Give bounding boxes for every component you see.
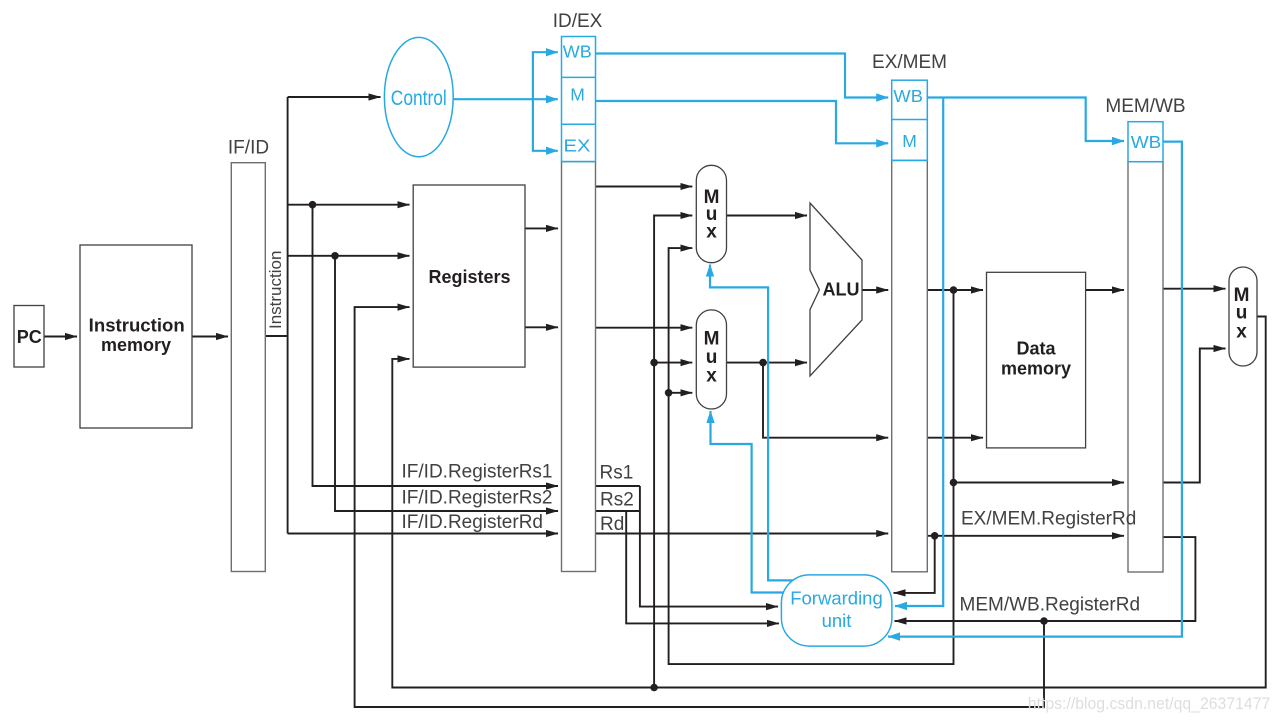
wire control branch to ID/EX WB — [533, 52, 558, 99]
svg-text:WB: WB — [893, 86, 923, 106]
pipeline register ID/EX black section — [562, 162, 596, 572]
wire ForwardA select to Mux1 — [710, 265, 793, 581]
block Registers — [413, 185, 525, 367]
block Instruction memory — [80, 245, 192, 428]
wire ID/EX.RegisterRs2 to Forwarding unit — [626, 511, 779, 623]
wire Registers read data 2 to ID/EX — [525, 326, 558, 328]
wire EX/MEM.RegisterRd to Forwarding unit — [894, 536, 935, 593]
wire to Registers read port 2 — [288, 255, 410, 257]
svg-text:Instruction: Instruction — [266, 251, 285, 329]
wire ID/EX value B to Mux2 — [596, 327, 693, 329]
wire ALU output to EX/MEM — [862, 289, 889, 291]
wire EX/MEM ALU result to Data memory address — [927, 289, 983, 291]
wire IF/ID.RegisterRs1 — [313, 205, 559, 486]
wire Registers read data 1 to ID/EX — [525, 227, 558, 229]
junction ALU result / forwarding tap — [950, 286, 958, 294]
mux Mux3 — [1229, 267, 1257, 366]
wire IF/ID.RegisterRd — [288, 533, 558, 535]
svg-text:memory: memory — [101, 335, 171, 355]
junction WB-value line / Mux2 input — [650, 359, 658, 367]
wire to Control — [288, 96, 381, 98]
svg-text:Registers: Registers — [428, 267, 510, 287]
junction instruction bus / Rs1 tap — [309, 201, 317, 209]
wire IF/ID instruction output stub — [265, 335, 287, 337]
wire Mux1 output to ALU — [727, 215, 808, 217]
svg-text:Instruction: Instruction — [89, 315, 185, 335]
svg-text:memory: memory — [1001, 358, 1071, 378]
wire EX/MEM store data to Data memory — [927, 437, 983, 439]
junction MEM/WB.RegisterRd tap — [1040, 617, 1048, 625]
svg-text:WB: WB — [563, 42, 592, 62]
svg-text:EX: EX — [564, 136, 591, 156]
wire Data memory read data to MEM/WB — [1086, 289, 1124, 291]
mux Mux2 — [696, 310, 726, 409]
ALU — [810, 203, 862, 376]
pipeline register ID/EX control section WB/M/EX — [562, 37, 596, 162]
wire IF/ID.RegisterRs2 — [335, 256, 558, 511]
junction write-data line / WB-value tap — [650, 684, 658, 692]
svg-text:https://blog.csdn.net/qq_26371: https://blog.csdn.net/qq_26371477 — [1028, 695, 1271, 713]
wire WB-value forwarding vertical to Mux1 — [654, 216, 692, 688]
block Forwarding unit — [781, 575, 892, 646]
pipeline register EX/MEM control section WB/M — [892, 80, 928, 160]
junction Mux2 output / store data — [759, 359, 767, 367]
svg-text:MEM/WB.RegisterRd: MEM/WB.RegisterRd — [960, 595, 1141, 616]
svg-text:MEM/WB: MEM/WB — [1105, 96, 1185, 117]
wire EX/MEM WB control down to Forwarding unit — [895, 98, 943, 607]
register PC — [14, 306, 44, 368]
block Data memory — [987, 272, 1086, 448]
svg-text:WB: WB — [1131, 132, 1162, 152]
wire Rs1 compartment divider — [596, 485, 640, 487]
wire ID/EX WB to EX/MEM WB — [596, 54, 889, 98]
wire Control output to ID/EX M — [453, 98, 558, 100]
svg-text:Rd: Rd — [600, 514, 624, 535]
svg-text:IF/ID.RegisterRd: IF/ID.RegisterRd — [402, 512, 543, 533]
svg-text:Control: Control — [391, 87, 447, 110]
wire MEM/WB.RegisterRd to Registers write register — [355, 307, 1044, 707]
wire EX/MEM.RegisterRd to MEM/WB — [927, 535, 1124, 537]
svg-text:ID/EX: ID/EX — [553, 11, 603, 32]
pipeline register EX/MEM black section — [892, 160, 928, 571]
svg-text:Rs1: Rs1 — [600, 463, 634, 484]
wire Rd field ID/EX to EX/MEM — [596, 533, 889, 535]
svg-text:IF/ID: IF/ID — [228, 138, 269, 159]
svg-text:ALU: ALU — [823, 280, 860, 300]
svg-text:EX/MEM.RegisterRd: EX/MEM.RegisterRd — [961, 508, 1136, 529]
svg-text:x: x — [1236, 322, 1247, 343]
wire MEM/WB WB control down to Forwarding unit — [888, 142, 1182, 637]
wire EX/MEM ALU result forwarding to Mux1 — [669, 248, 954, 664]
svg-text:x: x — [706, 222, 717, 243]
svg-text:M: M — [570, 85, 585, 105]
svg-text:PC: PC — [17, 327, 42, 347]
svg-text:unit: unit — [822, 610, 852, 631]
wire ID/EX.RegisterRs1 to Forwarding unit — [640, 486, 778, 607]
svg-text:u: u — [1236, 303, 1248, 324]
wire ID/EX M to EX/MEM M — [596, 101, 889, 143]
junction instruction bus / Rs2 tap — [331, 252, 339, 260]
wire Mux3 output to Registers write data — [392, 317, 1265, 688]
wire MEM/WB ALU result to Mux3 — [1163, 349, 1226, 483]
pipeline register IF/ID — [231, 163, 265, 572]
wire to Registers read port 1 — [288, 204, 410, 206]
pipeline register MEM/WB black section — [1128, 162, 1163, 572]
svg-text:IF/ID.RegisterRs2: IF/ID.RegisterRs2 — [402, 488, 553, 509]
wire ForwardB select to Mux2 — [711, 411, 784, 593]
wire WB-value branch to Mux2 — [654, 362, 692, 364]
pipeline register MEM/WB control section WB — [1128, 122, 1163, 162]
junction ALU result / MEM-WB bypass — [950, 479, 958, 487]
svg-text:M: M — [902, 131, 917, 151]
wire Mux2 output to ALU — [727, 362, 808, 364]
wire ALU result branch to MEM/WB — [954, 482, 1125, 484]
wire instruction bus main vertical — [287, 97, 289, 534]
junction EX/MEM-value line / Mux2 input — [665, 389, 673, 397]
wire Instruction memory to IF/ID — [192, 336, 228, 338]
svg-text:EX/MEM: EX/MEM — [872, 52, 947, 73]
wire MEM/WB read data to Mux3 — [1163, 288, 1226, 290]
wire ID/EX value A to Mux1 — [596, 186, 693, 188]
junction EX/MEM.RegisterRd tap — [931, 532, 939, 540]
wire MEM/WB.RegisterRd to Forwarding unit — [895, 537, 1196, 621]
wire Rs2 compartment divider — [596, 510, 640, 512]
wire EX/MEM ALU result branch to Mux2 — [669, 392, 693, 394]
svg-text:IF/ID.RegisterRs1: IF/ID.RegisterRs1 — [402, 462, 553, 483]
mux Mux1 — [696, 165, 726, 262]
oval Control — [384, 37, 453, 156]
svg-text:Forwarding: Forwarding — [790, 588, 883, 609]
svg-text:Data: Data — [1016, 339, 1056, 359]
wire EX/MEM WB to MEM/WB WB — [927, 98, 1124, 142]
svg-text:Rs2: Rs2 — [600, 490, 634, 511]
wire PC to Instruction memory — [44, 336, 77, 338]
svg-text:x: x — [706, 366, 717, 387]
wire control branch to ID/EX EX — [533, 99, 558, 151]
wire Mux2 output store data to EX/MEM — [763, 363, 888, 438]
